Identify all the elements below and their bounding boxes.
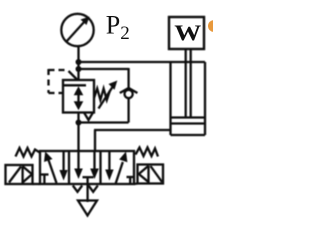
wire to cylinder top port — [79, 61, 206, 63]
drain triangle below valve — [84, 113, 93, 121]
cylinder piston — [171, 116, 206, 118]
wire check valve vertical bottom — [127, 98, 129, 123]
pressure reducing valve body — [63, 80, 94, 113]
gauge needle — [66, 21, 85, 42]
spring adjust arrow — [99, 87, 113, 109]
wire check valve vertical top — [127, 68, 129, 90]
cylinder barrel — [169, 62, 171, 135]
svg-text:2: 2 — [120, 23, 130, 44]
wire bottom edge connectors — [33, 183, 41, 185]
valve flow double arrow — [77, 90, 79, 105]
left position diagonal arrow — [49, 160, 57, 183]
left return spring — [16, 148, 40, 157]
left position down arrow — [62, 151, 64, 172]
right position down arrow — [108, 151, 110, 170]
label W — [174, 21, 201, 45]
wire A-line vertical — [94, 130, 96, 152]
tank drain arrows — [73, 186, 82, 192]
svg-text:P: P — [106, 11, 120, 40]
left solenoid box — [6, 165, 33, 184]
wire to tank — [86, 184, 88, 202]
right solenoid box — [138, 165, 164, 184]
centre position blocked port T — [83, 176, 94, 178]
wire valve outlet down — [77, 113, 79, 153]
orange bullet fragment — [208, 20, 220, 32]
tank symbol — [78, 201, 97, 216]
gauge stem wire — [77, 46, 79, 81]
wire bypass top — [79, 68, 129, 70]
pressure gauge P2 — [61, 14, 93, 46]
node junction dot upper — [76, 59, 82, 65]
right position blocked port T — [127, 176, 135, 178]
centre position down arrow 1 — [77, 151, 79, 170]
wire A-line horizontal — [94, 129, 171, 131]
pilot dashed line — [49, 69, 69, 71]
directional valve body — [40, 151, 134, 184]
svg-text:W: W — [174, 21, 201, 45]
right return spring — [136, 148, 159, 157]
centre position down arrow 2 — [93, 151, 95, 170]
adjustable spring — [94, 89, 110, 101]
node junction dot outlet — [76, 120, 82, 126]
check valve seat — [120, 88, 138, 93]
load box W — [169, 17, 204, 49]
position divider left — [68, 151, 70, 184]
position divider right — [99, 151, 101, 184]
wire bypass bottom — [79, 121, 129, 123]
piston rod — [185, 48, 187, 118]
left position blocked port T — [41, 173, 49, 175]
node junction dot lower — [76, 66, 82, 72]
valve inner top passage line — [63, 84, 86, 86]
check valve ball — [125, 90, 133, 98]
right position diagonal arrow — [116, 162, 123, 184]
